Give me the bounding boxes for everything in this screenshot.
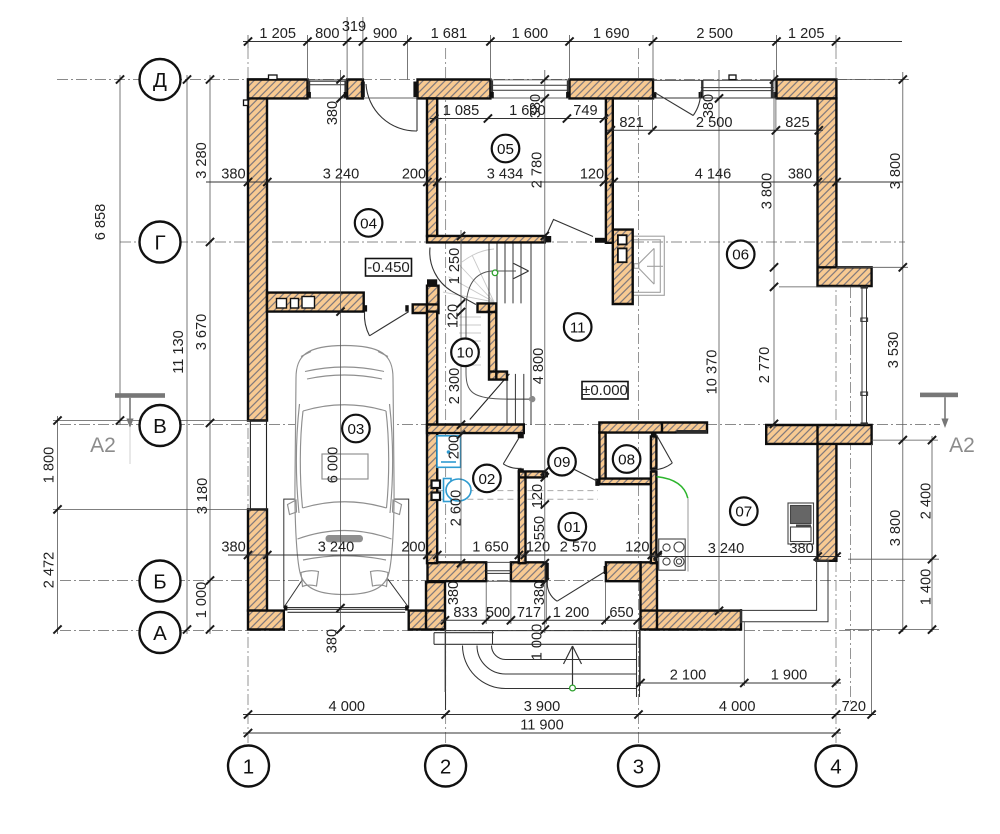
wall: corridor wall 10|09 <box>427 425 524 434</box>
axis circles bottom <box>228 746 269 787</box>
wall: stair inner walls <box>478 303 508 379</box>
svg-text:03: 03 <box>347 421 364 438</box>
stair lower flight treads <box>507 374 532 425</box>
svg-text:319: 319 <box>342 19 366 35</box>
level ±0.000 <box>582 382 628 400</box>
stair upper flight treads <box>489 243 531 424</box>
long measure line x=340.5 <box>340 70 342 630</box>
svg-text:1 200: 1 200 <box>553 605 590 621</box>
svg-text:120: 120 <box>530 484 546 508</box>
svg-text:200: 200 <box>447 435 463 459</box>
wall: partition wall 02|01 <box>519 471 544 563</box>
window W3 1600 top <box>490 81 569 98</box>
svg-text:200: 200 <box>402 167 426 183</box>
svg-text:550: 550 <box>532 516 548 540</box>
kitchen counter edge <box>687 498 689 571</box>
svg-text:09: 09 <box>554 454 571 471</box>
svg-text:А: А <box>153 622 167 645</box>
door D1 frame jambs <box>361 82 365 98</box>
outer wall notch left <box>244 100 249 106</box>
door D1 top (900) <box>366 82 417 131</box>
bottom extension verticals <box>871 444 873 716</box>
door/window jambs <box>308 92 777 486</box>
outer wall notch top-right <box>729 75 736 80</box>
outer wall notch top-left <box>269 75 278 80</box>
svg-text:120: 120 <box>446 304 462 328</box>
void-above dashed lines <box>437 490 598 492</box>
door 09 leader/leaf <box>573 469 598 482</box>
svg-text:Б: Б <box>153 570 166 593</box>
rotated dim labels <box>42 94 935 660</box>
front door leaf + swing <box>547 572 604 601</box>
entry arrow <box>564 646 582 687</box>
wall: exterior wall right (axis 4) with bay <box>766 98 871 560</box>
svg-text:08: 08 <box>618 451 635 468</box>
room number circles <box>559 513 587 541</box>
window W4 bottom room02 <box>486 562 511 581</box>
fridge/counter kitchen <box>788 503 814 544</box>
svg-text:2 400: 2 400 <box>919 483 935 520</box>
svg-text:В: В <box>153 415 167 438</box>
wall: exterior wall left (axis 1) <box>248 80 267 611</box>
wall: exterior wall kitchen bottom <box>641 562 742 629</box>
svg-text:120: 120 <box>526 540 550 556</box>
left window extension lines <box>53 420 250 422</box>
axis line row А <box>60 630 880 632</box>
measure line x=774 bay <box>773 70 775 428</box>
svg-text:3: 3 <box>633 755 644 778</box>
axis line col 3 <box>638 48 640 744</box>
measure line x=461 stairs <box>460 230 462 570</box>
door corridor-02 <box>503 438 521 468</box>
door 04-garage D2 <box>364 312 408 336</box>
svg-text:2 100: 2 100 <box>670 668 707 684</box>
svg-text:3 240: 3 240 <box>318 540 355 556</box>
wall: partition wall 04|05 <box>427 98 437 236</box>
vent boxes in wall 04/garage <box>277 299 287 309</box>
dim row right 821/2500/825 <box>607 115 823 135</box>
svg-text:380: 380 <box>221 540 245 556</box>
left dim columns <box>57 416 59 634</box>
svg-text:1 800: 1 800 <box>42 447 58 484</box>
dim row room05 <box>430 103 608 123</box>
svg-text:650: 650 <box>609 605 633 621</box>
ticks right columns <box>715 75 936 633</box>
svg-text:720: 720 <box>842 699 866 715</box>
svg-text:2 780: 2 780 <box>530 152 546 189</box>
wall: wall stub right of door D2 <box>413 286 439 313</box>
svg-text:800: 800 <box>315 26 339 42</box>
svg-text:120: 120 <box>580 167 604 183</box>
svg-text:380: 380 <box>446 581 462 605</box>
svg-text:Д: Д <box>153 69 167 92</box>
svg-text:1 690: 1 690 <box>593 26 630 42</box>
washer boxes black room02 <box>432 481 441 501</box>
chimney vents <box>618 235 627 244</box>
svg-text:A2: A2 <box>90 434 116 457</box>
top openings face lines <box>308 79 348 81</box>
svg-text:11 900: 11 900 <box>520 718 564 734</box>
wall: exterior wall garage front piers <box>248 582 445 630</box>
svg-text:1: 1 <box>243 755 254 778</box>
svg-text:05: 05 <box>497 141 514 158</box>
garage door jambs <box>284 606 288 611</box>
dim row 2100/1900 <box>636 668 841 688</box>
axis line row В <box>60 424 940 426</box>
svg-text:2 570: 2 570 <box>560 540 597 556</box>
window bar wall 08|07 <box>677 430 708 433</box>
svg-text:380: 380 <box>325 101 341 125</box>
dim row 11900 <box>243 718 841 738</box>
svg-text:3 670: 3 670 <box>194 314 210 351</box>
garage ramp outline <box>284 499 409 607</box>
svg-text:833: 833 <box>453 605 477 621</box>
svg-text:10 370: 10 370 <box>705 350 721 395</box>
section marker A2 left <box>90 393 165 464</box>
axis circles left <box>140 59 181 100</box>
axis line col 2 <box>445 48 447 744</box>
level -0.450 <box>366 259 412 277</box>
svg-text:900: 900 <box>373 26 397 42</box>
dim row kitchen <box>652 541 841 561</box>
axis line row Б <box>60 580 905 582</box>
car top view <box>288 346 402 595</box>
svg-text:1 085: 1 085 <box>443 103 480 119</box>
svg-text:380: 380 <box>528 94 544 118</box>
svg-text:A2: A2 <box>949 434 975 457</box>
svg-text:1 681: 1 681 <box>431 26 468 42</box>
svg-text:2 500: 2 500 <box>696 26 733 42</box>
wall: room 08 top wall with window <box>599 423 707 433</box>
svg-text:380: 380 <box>325 629 341 653</box>
svg-text:1 600: 1 600 <box>512 26 549 42</box>
svg-text:6 000: 6 000 <box>326 447 342 484</box>
svg-text:2 600: 2 600 <box>448 490 464 527</box>
wall: room 08 left and bottom walls <box>599 433 650 485</box>
dim row porch <box>441 605 642 625</box>
right dim columns <box>902 72 904 632</box>
svg-text:3 900: 3 900 <box>524 699 561 715</box>
window W2 800 top <box>308 81 348 98</box>
svg-text:1 205: 1 205 <box>788 26 825 42</box>
wall: stair top wall 05|10 <box>427 236 545 243</box>
right extension horizontals <box>837 79 909 81</box>
svg-text:3 434: 3 434 <box>487 167 524 183</box>
axis line bay window <box>850 268 852 705</box>
svg-text:3 530: 3 530 <box>886 332 902 369</box>
stair winder light treads <box>443 249 494 365</box>
svg-text:1 250: 1 250 <box>447 248 463 285</box>
dim row garage/01 <box>221 540 662 560</box>
door 04-stairs <box>430 248 476 305</box>
svg-text:10: 10 <box>457 345 474 362</box>
bay window glazing <box>861 286 869 425</box>
svg-text:±0.000: ±0.000 <box>582 382 628 399</box>
dim row top main <box>243 26 902 46</box>
axis line row Г <box>120 241 905 243</box>
wall: wall 04|garage with vent boxes <box>267 293 364 312</box>
long measure line x=544.8 <box>544 70 546 633</box>
water heater (blue) room02 <box>437 436 461 468</box>
svg-text:749: 749 <box>573 103 597 119</box>
svg-text:3 280: 3 280 <box>194 142 210 179</box>
svg-text:1 400: 1 400 <box>919 569 935 606</box>
svg-text:06: 06 <box>732 247 749 264</box>
svg-text:6 858: 6 858 <box>93 204 109 241</box>
wall: wall garage|stairs <box>427 312 437 564</box>
svg-text:2 770: 2 770 <box>757 347 773 384</box>
svg-text:4 800: 4 800 <box>531 348 547 385</box>
svg-text:Г: Г <box>154 231 165 254</box>
dim row 4000/3900/4000/720 <box>243 699 876 719</box>
long measure line x=719 <box>718 70 720 614</box>
svg-text:380: 380 <box>701 94 717 118</box>
window W1 left wall garage <box>250 421 266 510</box>
garage door leaf lines <box>288 608 406 610</box>
ticks interior vertical lines <box>336 75 549 633</box>
svg-text:4 000: 4 000 <box>719 699 756 715</box>
stove kitchen <box>659 539 686 570</box>
svg-text:2: 2 <box>440 755 451 778</box>
green door 01-07 <box>657 477 688 499</box>
svg-text:1 000: 1 000 <box>530 624 546 661</box>
stair break line <box>470 374 510 420</box>
svg-text:4 146: 4 146 <box>695 167 732 183</box>
stair walk line with start dot and arrow <box>529 396 535 402</box>
dim row y182 long <box>206 167 903 187</box>
porch slab edge <box>434 630 640 711</box>
jamb block at room 11 <box>595 238 606 243</box>
svg-text:500: 500 <box>486 605 510 621</box>
dim extension verticals top <box>248 17 836 80</box>
svg-text:-0.450: -0.450 <box>367 259 410 276</box>
svg-text:02: 02 <box>478 471 495 488</box>
toilet (blue) room02 <box>444 479 472 502</box>
porch steps <box>463 646 638 689</box>
svg-text:1 000: 1 000 <box>194 582 210 619</box>
svg-text:3 240: 3 240 <box>708 541 745 557</box>
wall: exterior front wall rooms 01/02 <box>428 562 641 581</box>
window W5 in 2500 opening top <box>701 81 774 98</box>
svg-text:717: 717 <box>517 605 541 621</box>
svg-text:11: 11 <box>570 319 586 336</box>
svg-text:3 180: 3 180 <box>195 478 211 515</box>
svg-text:120: 120 <box>625 540 649 556</box>
svg-text:3 240: 3 240 <box>323 167 360 183</box>
svg-text:821: 821 <box>619 115 643 131</box>
front door jambs <box>546 563 549 581</box>
svg-text:200: 200 <box>401 540 425 556</box>
svg-text:1 650: 1 650 <box>472 540 509 556</box>
svg-text:07: 07 <box>735 504 752 521</box>
svg-text:1 205: 1 205 <box>259 26 296 42</box>
fireplace <box>630 236 664 295</box>
svg-text:380: 380 <box>789 541 813 557</box>
svg-text:380: 380 <box>788 167 812 183</box>
door 05-11 <box>546 220 593 237</box>
wall: partition wall 01|07 <box>651 436 657 563</box>
door top-right terrace <box>654 92 700 116</box>
svg-text:04: 04 <box>360 215 377 232</box>
section marker A2 right <box>920 393 975 457</box>
opening face lines top-right <box>653 79 777 81</box>
ticks left columns <box>53 75 214 633</box>
axis line row Д <box>57 79 912 81</box>
axis line col 1 <box>247 48 249 744</box>
svg-text:01: 01 <box>564 519 581 536</box>
svg-text:380: 380 <box>532 581 548 605</box>
svg-text:2 472: 2 472 <box>42 552 58 589</box>
svg-text:4: 4 <box>830 755 841 778</box>
svg-text:4 000: 4 000 <box>329 699 366 715</box>
wall: exterior wall top (axis Д) <box>248 80 836 99</box>
corner glazing kitchen/terrace <box>741 561 829 623</box>
svg-text:380: 380 <box>221 167 245 183</box>
svg-text:2 300: 2 300 <box>447 368 463 405</box>
door 08 leaf <box>652 435 672 470</box>
axis line col 4 <box>835 48 837 744</box>
wall: chimney wall 05|06 <box>606 98 633 304</box>
svg-text:3 800: 3 800 <box>888 153 904 190</box>
svg-text:3 800: 3 800 <box>760 173 776 210</box>
svg-text:11 130: 11 130 <box>171 330 187 374</box>
svg-text:1 900: 1 900 <box>771 668 808 684</box>
svg-text:825: 825 <box>785 115 809 131</box>
svg-text:3 800: 3 800 <box>888 510 904 547</box>
